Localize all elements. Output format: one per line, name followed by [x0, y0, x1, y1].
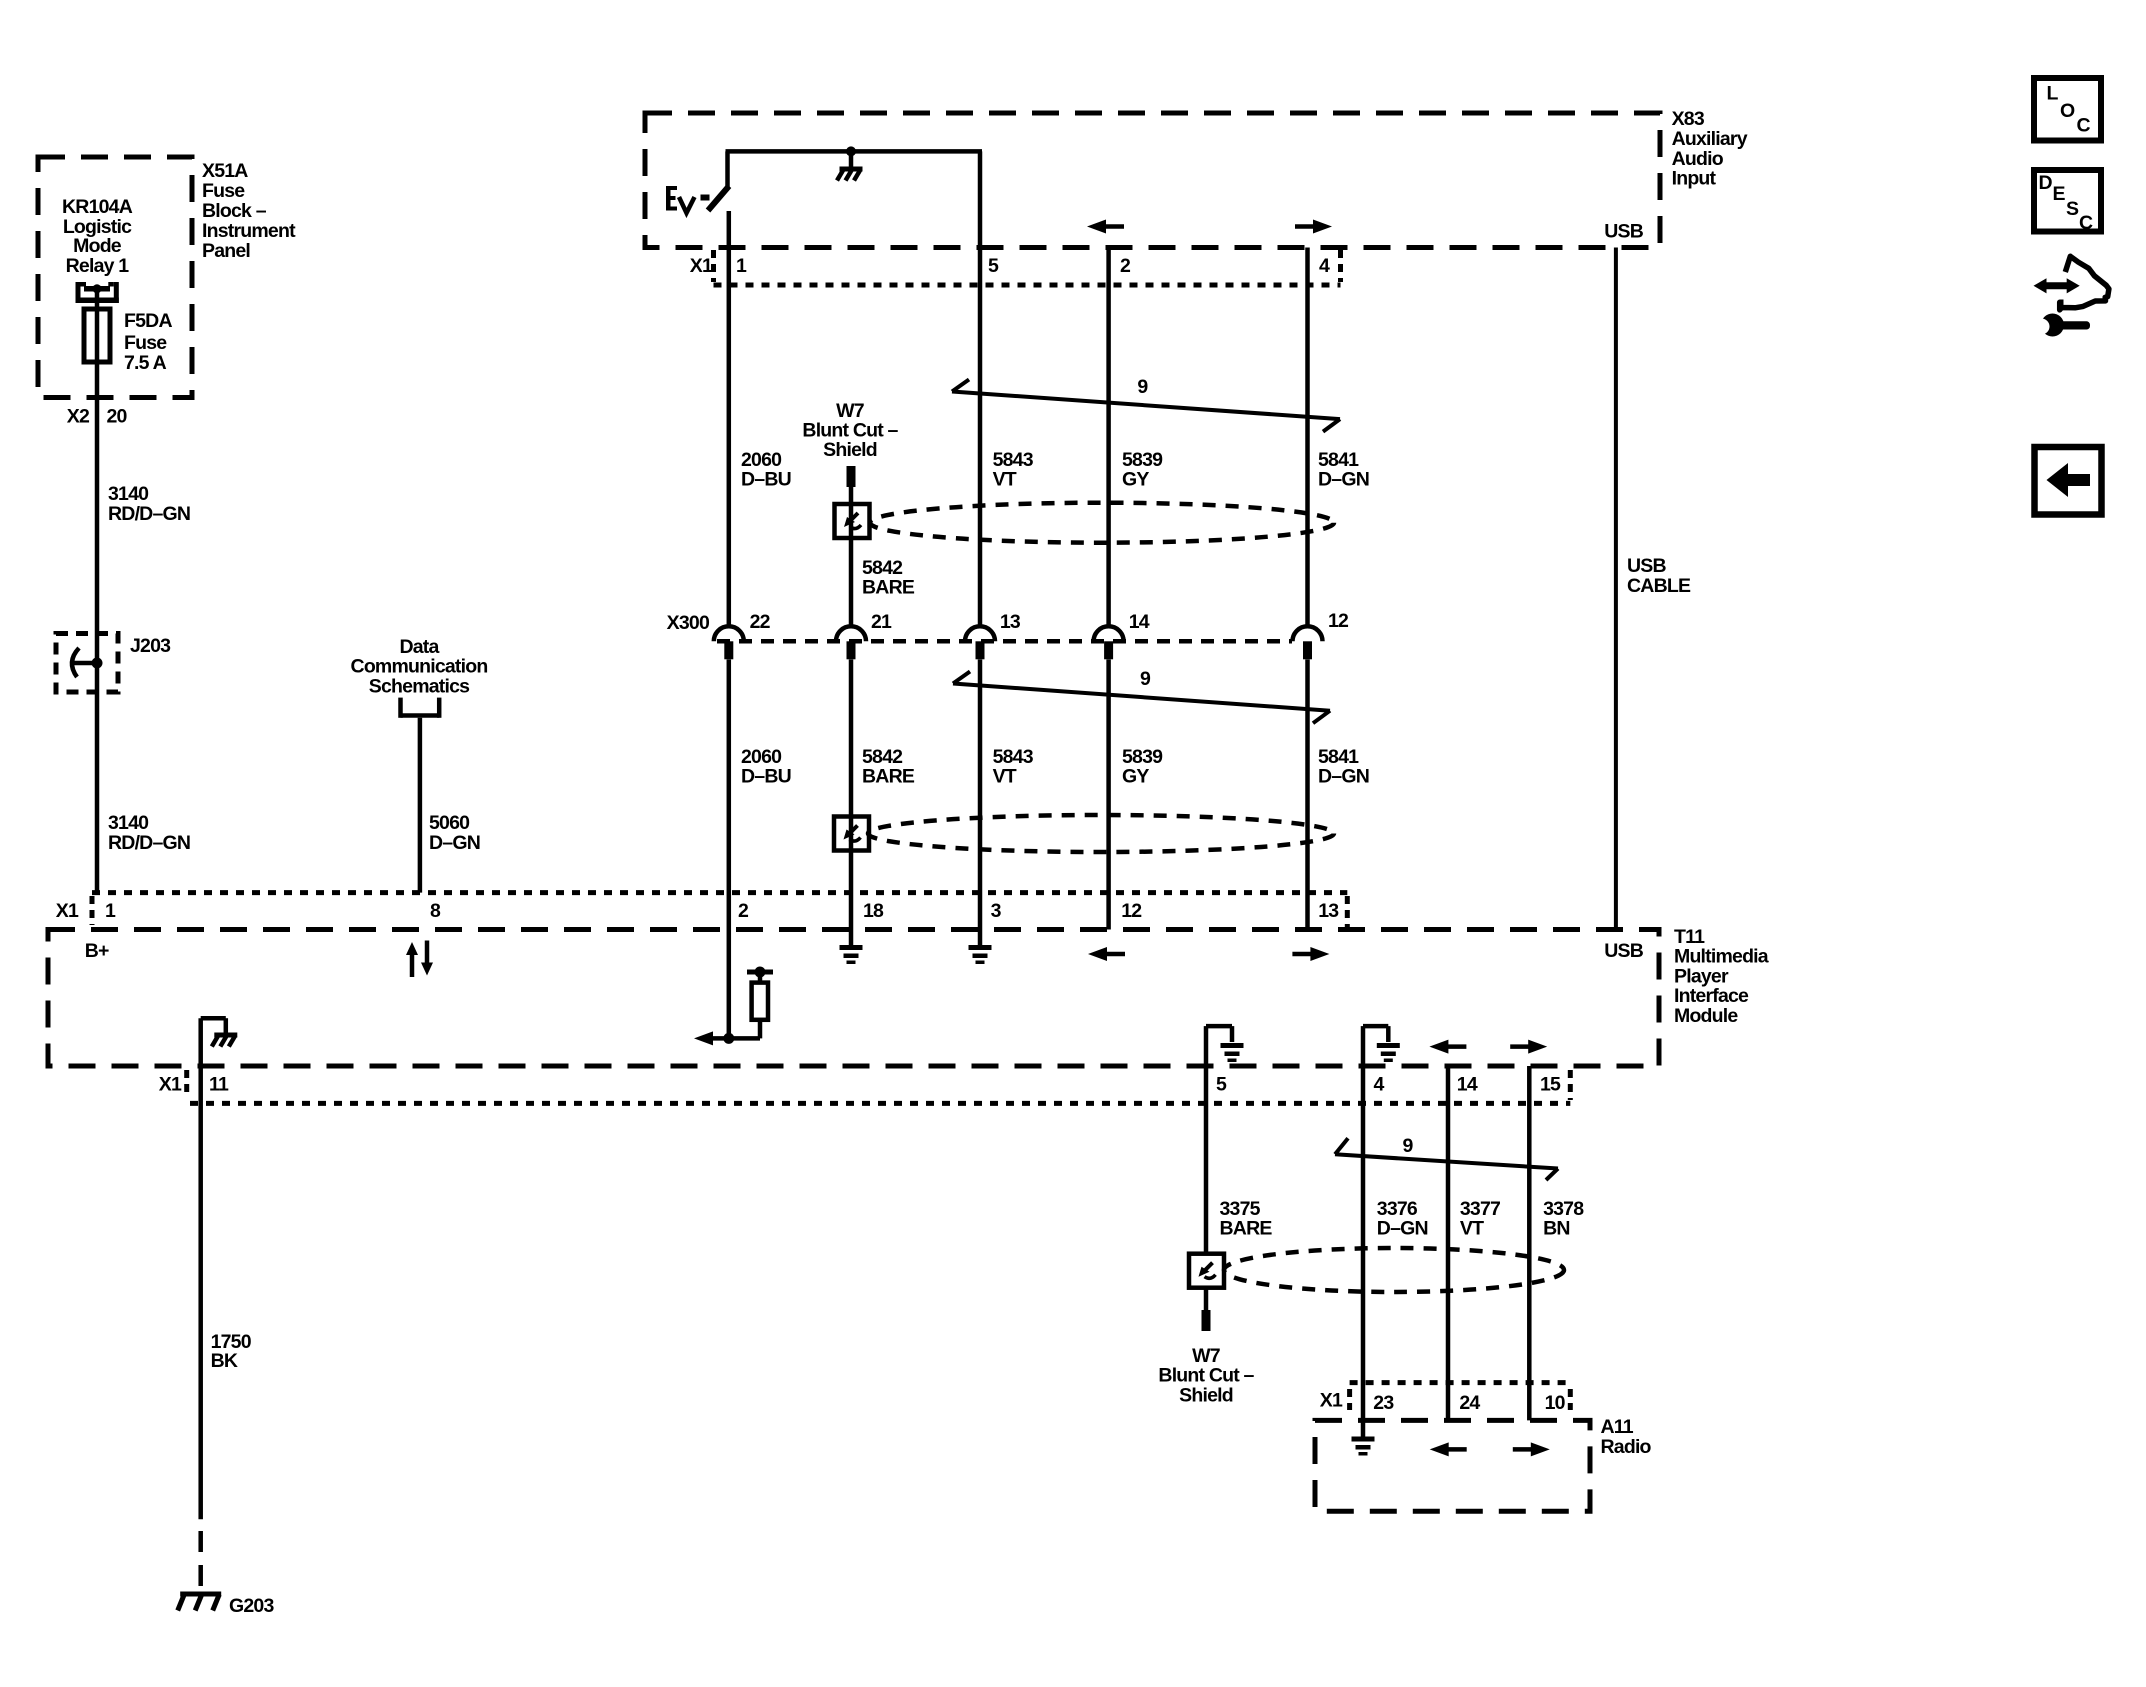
label E switch in X83: [666, 186, 695, 213]
label X83 Auxiliary Audio Input: [1672, 108, 1748, 190]
component box X83 Auxiliary Audio Input: [645, 113, 1660, 248]
arrow left in X83: [1087, 220, 1124, 234]
pin 5 label T11 bottom: [1216, 1074, 1227, 1096]
label G203: [229, 1595, 274, 1617]
junction dot 2060: [723, 1033, 734, 1044]
label W7 Blunt Cut Shield lower: [1158, 1345, 1254, 1406]
wire 5060 D-GN: [418, 718, 423, 893]
svg-text:14: 14: [1129, 611, 1150, 633]
label 3376 D-GN: [1377, 1198, 1428, 1240]
ground 3376 in A11: [1352, 1437, 1375, 1456]
svg-text:VT: VT: [993, 469, 1017, 491]
svg-text:Mode: Mode: [73, 235, 122, 257]
label X1 on X83 connector: [690, 255, 713, 277]
svg-text:22: 22: [750, 611, 771, 633]
svg-text:10: 10: [1545, 1392, 1566, 1414]
wire 5841 D-GN upper: [1305, 248, 1310, 628]
resistor in T11: [729, 967, 773, 1039]
pin 2 label X83: [1120, 255, 1131, 277]
svg-text:D–GN: D–GN: [1318, 469, 1369, 491]
arrow right pin 15 in T11: [1510, 1040, 1547, 1054]
label 5842 BARE lower: [862, 746, 915, 788]
svg-text:Fuse: Fuse: [202, 180, 245, 202]
svg-text:1: 1: [105, 900, 116, 922]
svg-text:24: 24: [1459, 1392, 1480, 1414]
wire 3375 below square: [1204, 1289, 1209, 1310]
shield splice square radio: [1189, 1254, 1224, 1288]
svg-text:F5DA: F5DA: [124, 310, 172, 332]
svg-text:C: C: [2077, 114, 2091, 136]
connector X300 arc pin 21: [836, 626, 866, 659]
svg-text:X1: X1: [690, 255, 713, 277]
label X300: [667, 612, 710, 634]
svg-text:Communication: Communication: [351, 656, 488, 678]
pin 14 label X300: [1129, 611, 1150, 633]
shield splice square upper: [835, 504, 870, 538]
svg-text:15: 15: [1540, 1074, 1561, 1096]
svg-text:VT: VT: [993, 766, 1017, 788]
wire USB cable: [1614, 248, 1618, 930]
svg-text:5: 5: [988, 255, 999, 277]
svg-text:Fuse: Fuse: [124, 332, 167, 354]
svg-text:9: 9: [1140, 668, 1151, 690]
svg-text:Player: Player: [1674, 965, 1729, 987]
label X1 on T11 bottom connector: [159, 1074, 182, 1096]
svg-text:GY: GY: [1122, 469, 1149, 491]
svg-text:BARE: BARE: [862, 577, 915, 599]
relay KR104A contact: [76, 282, 119, 303]
ground G203: [178, 1594, 222, 1611]
svg-text:BARE: BARE: [1220, 1218, 1273, 1240]
twisted pair marker 9 middle: [953, 672, 1330, 724]
wire 5843 VT lower: [978, 660, 983, 946]
svg-text:G203: G203: [229, 1595, 274, 1617]
svg-text:5842: 5842: [862, 746, 903, 768]
label 2060 D-BU upper: [741, 449, 791, 491]
shield ellipse radio: [1224, 1248, 1564, 1292]
pin 21 label X300: [871, 611, 892, 633]
label 9 upper: [1137, 376, 1148, 398]
svg-text:USB: USB: [1604, 940, 1643, 962]
label T11 Multimedia Player Interface Module: [1674, 926, 1769, 1027]
wire 2060 D-BU lower: [727, 660, 732, 1039]
svg-text:5: 5: [1216, 1074, 1227, 1096]
svg-text:4: 4: [1374, 1074, 1385, 1096]
wire 5841 D-GN lower: [1305, 660, 1310, 930]
arrow right in A11: [1513, 1442, 1550, 1456]
label X1 on A11 connector: [1320, 1390, 1343, 1412]
ground 5842 in T11: [840, 945, 863, 964]
svg-text:Auxiliary: Auxiliary: [1672, 128, 1748, 150]
svg-text:X1: X1: [1320, 1390, 1343, 1412]
svg-text:11: 11: [209, 1074, 229, 1096]
svg-text:D–GN: D–GN: [1318, 766, 1369, 788]
svg-text:Panel: Panel: [202, 240, 250, 262]
label 2060 D-BU lower: [741, 746, 791, 788]
label 5843 VT lower: [993, 746, 1034, 788]
off-page bracket Data Communication Schematics: [401, 698, 440, 718]
svg-text:2060: 2060: [741, 746, 782, 768]
svg-text:2: 2: [738, 900, 749, 922]
svg-text:14: 14: [1457, 1074, 1478, 1096]
label 1750 BK: [211, 1331, 252, 1372]
label A11 Radio: [1601, 1416, 1652, 1458]
svg-text:Multimedia: Multimedia: [1674, 946, 1769, 968]
pin 24 label A11: [1459, 1392, 1480, 1414]
connector T11 X1 top row: [92, 893, 1347, 930]
svg-text:S: S: [2066, 198, 2079, 220]
label relay KR104A Logistic Mode Relay 1: [62, 196, 133, 277]
icon box LOC: [2034, 78, 2101, 141]
label USB in T11: [1604, 940, 1643, 962]
wire 5842 shield lower: [849, 660, 854, 946]
svg-text:CABLE: CABLE: [1627, 575, 1691, 597]
label 5842 BARE upper: [862, 557, 915, 599]
component box T11 Multimedia Player Interface Module: [48, 930, 1659, 1067]
svg-text:GY: GY: [1122, 766, 1149, 788]
wire 5839 GY lower: [1106, 660, 1111, 930]
pin 23 label A11: [1373, 1392, 1394, 1414]
label USB CABLE: [1627, 555, 1691, 597]
svg-text:21: 21: [871, 611, 892, 633]
label 3378 BN: [1543, 1198, 1584, 1240]
svg-text:20: 20: [107, 406, 128, 428]
wire 3377 VT: [1446, 1066, 1451, 1420]
connector X300 line: [717, 639, 1292, 644]
arrow right 5841 in T11: [1292, 947, 1329, 961]
ground hook pin 5 in T11: [1206, 1026, 1244, 1066]
pin 8 label T11: [430, 900, 441, 922]
blunt cut stub W7 lower: [1202, 1310, 1211, 1331]
ground hook pin 11 in T11: [201, 1018, 238, 1066]
label 3375 BARE: [1220, 1198, 1273, 1240]
svg-text:23: 23: [1373, 1392, 1394, 1414]
arrow left 5839 in T11: [1088, 947, 1125, 961]
pin 3 label T11: [991, 900, 1002, 922]
pin 14 label T11 bottom: [1457, 1074, 1478, 1096]
pin 4 label T11 bottom: [1374, 1074, 1385, 1096]
arrow right in X83: [1295, 220, 1332, 234]
svg-text:13: 13: [1000, 611, 1021, 633]
svg-text:Schematics: Schematics: [369, 675, 470, 697]
label X1 on T11 top connector: [56, 900, 79, 922]
svg-text:Instrument: Instrument: [202, 220, 296, 242]
label 5060 D-GN: [429, 812, 480, 854]
svg-text:18: 18: [863, 900, 884, 922]
svg-text:E: E: [2053, 183, 2066, 205]
wire 3378 BN: [1527, 1066, 1532, 1420]
label J203: [130, 635, 171, 657]
svg-text:12: 12: [1121, 900, 1142, 922]
svg-text:Radio: Radio: [1601, 1436, 1652, 1458]
svg-text:X51A: X51A: [202, 160, 248, 182]
wire 3375 BARE: [1204, 1066, 1209, 1253]
component box X51A Fuse Block - Instrument Panel: [38, 157, 192, 398]
arrows up down at pin 8: [406, 941, 433, 978]
ground 5843 in T11: [969, 945, 992, 964]
icon box DESC: [2034, 170, 2101, 234]
wire 1750 BK dashed tail: [198, 1531, 203, 1592]
svg-text:USB: USB: [1604, 221, 1643, 243]
svg-text:J203: J203: [130, 635, 171, 657]
twisted pair marker 9 upper: [952, 380, 1340, 432]
pin 13 label T11: [1318, 900, 1339, 922]
wire X83 internal bus: [726, 151, 983, 249]
pin 2 label T11: [738, 900, 749, 922]
label 5839 GY lower: [1122, 746, 1163, 788]
pin 12 label T11: [1121, 900, 1142, 922]
svg-text:Input: Input: [1672, 168, 1717, 190]
svg-text:5060: 5060: [429, 812, 470, 834]
svg-text:BK: BK: [211, 1350, 238, 1372]
arrow left 2060 termination: [694, 1031, 730, 1045]
svg-text:W7: W7: [1192, 1345, 1220, 1367]
svg-text:C: C: [2079, 212, 2093, 234]
svg-text:9: 9: [1403, 1135, 1414, 1157]
svg-text:Interface: Interface: [1674, 985, 1749, 1007]
pin 15 label T11 bottom: [1540, 1074, 1561, 1096]
twisted pair marker 9 lower: [1335, 1138, 1558, 1180]
svg-text:D–BU: D–BU: [741, 469, 791, 491]
svg-text:USB: USB: [1627, 555, 1666, 577]
label 3140 RD/D-GN lower: [108, 812, 190, 854]
label 5839 GY upper: [1122, 449, 1163, 491]
wire 3376 D-GN: [1361, 1066, 1366, 1437]
shield ellipse lower: [868, 815, 1334, 852]
svg-text:RD/D–GN: RD/D–GN: [108, 503, 190, 525]
svg-text:Shield: Shield: [1179, 1384, 1233, 1406]
pin 1 label T11: [105, 900, 116, 922]
wire 5842 shield upper: [849, 487, 854, 627]
label 9 lower: [1403, 1135, 1414, 1157]
svg-text:X1: X1: [56, 900, 79, 922]
svg-text:Relay 1: Relay 1: [66, 255, 130, 277]
wire 3140 RD/D-GN upper segment: [95, 398, 100, 664]
svg-text:T11: T11: [1674, 926, 1705, 948]
svg-text:4: 4: [1319, 255, 1330, 277]
ground hook pin 4 in T11: [1363, 1026, 1400, 1066]
svg-text:D–GN: D–GN: [1377, 1218, 1428, 1240]
wire 5839 GY upper: [1106, 248, 1111, 628]
wire 2060 D-BU upper: [727, 211, 732, 627]
connector X300 arc pin 22: [714, 626, 744, 659]
label 5841 D-GN lower: [1318, 746, 1369, 788]
wire 5843 VT upper: [978, 249, 983, 627]
svg-text:1: 1: [736, 255, 747, 277]
svg-text:3: 3: [991, 900, 1002, 922]
svg-text:D: D: [2039, 172, 2053, 194]
label 3140 RD/D-GN upper: [108, 483, 190, 525]
wire 1750 BK: [198, 1066, 203, 1519]
arrow left in A11: [1430, 1442, 1467, 1456]
switch blade in X83: [701, 151, 730, 210]
component box A11 Radio: [1315, 1420, 1590, 1511]
pin 22 label X300: [750, 611, 771, 633]
svg-text:X83: X83: [1672, 108, 1705, 130]
pin 5 label X83: [988, 255, 999, 277]
blunt cut stub W7 upper: [847, 466, 856, 487]
connector X2 pin 20 labels: [67, 406, 128, 428]
label B+: [85, 940, 109, 962]
pin 18 label T11: [863, 900, 884, 922]
svg-text:3140: 3140: [108, 483, 149, 505]
svg-text:VT: VT: [1460, 1218, 1484, 1240]
connector A11 X1 row: [1350, 1383, 1571, 1410]
svg-text:X1: X1: [159, 1074, 182, 1096]
pin 1 label X83: [736, 255, 747, 277]
label 5843 VT upper: [993, 449, 1034, 491]
svg-text:BARE: BARE: [862, 766, 915, 788]
icon box back arrow: [2035, 447, 2102, 515]
svg-text:D–GN: D–GN: [429, 832, 480, 854]
label W7 Blunt Cut Shield upper: [802, 400, 898, 461]
label X51A Fuse Block - Instrument Panel: [202, 160, 296, 262]
wire from relay through fuse to connector X2 pin 20: [95, 289, 100, 398]
label Data Communication Schematics: [351, 636, 488, 697]
connector X83 X1 row: [714, 250, 1341, 285]
svg-text:12: 12: [1328, 610, 1349, 632]
svg-text:KR104A: KR104A: [62, 196, 133, 218]
label 5841 D-GN upper: [1318, 449, 1369, 491]
svg-text:13: 13: [1318, 900, 1339, 922]
connector X300 arc pin 13: [965, 626, 995, 659]
arrow left pin 14 in T11: [1429, 1040, 1466, 1054]
svg-text:Module: Module: [1674, 1005, 1738, 1027]
ground in X83: [837, 146, 863, 180]
connector T11 X1 bottom row: [187, 1070, 1571, 1103]
splice J203: [56, 634, 118, 693]
svg-text:Block –: Block –: [202, 200, 267, 222]
pin 13 label X300: [1000, 611, 1021, 633]
pin 10 label A11: [1545, 1392, 1566, 1414]
label USB in X83: [1604, 221, 1643, 243]
svg-text:7.5 A: 7.5 A: [124, 352, 167, 374]
svg-text:8: 8: [430, 900, 441, 922]
svg-text:5843: 5843: [993, 746, 1034, 768]
svg-text:3140: 3140: [108, 812, 149, 834]
svg-text:5841: 5841: [1318, 746, 1359, 768]
icon vehicle with arrow and wrench: [2034, 256, 2109, 336]
svg-text:9: 9: [1137, 376, 1148, 398]
connector X300 arc pin 12: [1293, 626, 1323, 659]
shield ellipse upper: [870, 503, 1334, 543]
shield splice square lower: [834, 817, 869, 851]
wire 3140 RD/D-GN lower segment: [95, 663, 100, 893]
label 3377 VT: [1460, 1198, 1500, 1240]
svg-text:BN: BN: [1543, 1218, 1570, 1240]
svg-text:RD/D–GN: RD/D–GN: [108, 832, 190, 854]
svg-text:X2: X2: [67, 406, 90, 428]
svg-text:O: O: [2060, 100, 2075, 122]
connector X300 arc pin 14: [1094, 626, 1124, 659]
svg-text:A11: A11: [1601, 1416, 1634, 1438]
pin 11 label T11 bottom: [209, 1074, 229, 1096]
svg-text:2: 2: [1120, 255, 1131, 277]
label F5DA Fuse 7.5 A: [124, 310, 172, 374]
label 9 middle: [1140, 668, 1151, 690]
svg-text:L: L: [2047, 83, 2059, 105]
svg-text:5839: 5839: [1122, 746, 1163, 768]
svg-text:Shield: Shield: [823, 439, 877, 461]
svg-text:D–BU: D–BU: [741, 766, 791, 788]
pin 12 label X300: [1328, 610, 1349, 632]
pin 4 label X83: [1319, 255, 1330, 277]
fuse F5DA 7.5 A: [84, 309, 110, 362]
svg-text:B+: B+: [85, 940, 109, 962]
svg-text:X300: X300: [667, 612, 710, 634]
